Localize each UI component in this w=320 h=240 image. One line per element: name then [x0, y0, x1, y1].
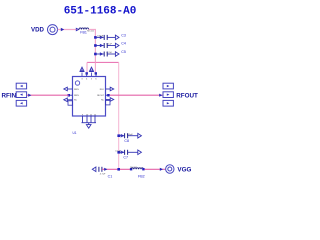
- junction at pin 96: [95, 72, 97, 74]
- capacitor C4: [104, 43, 107, 48]
- wire C8 to ground: [128, 135, 138, 137]
- svg-text:RFOUT: RFOUT: [97, 95, 105, 97]
- arrow into C8: [121, 135, 124, 137]
- ground below IC: [86, 125, 91, 129]
- ground right of C7: [138, 150, 142, 155]
- inductor FB1 coil: [79, 28, 89, 30]
- inner pin numbers bottom: [82, 114, 97, 116]
- wire VDD to FB1: [58, 29, 79, 31]
- arrow into C7: [121, 151, 124, 153]
- no-connect flag on top pin x82: [80, 67, 84, 77]
- wire C1 to junction: [102, 168, 131, 170]
- right pin arrow y99.5: [106, 98, 114, 102]
- capacitor C5: [104, 52, 107, 57]
- right pin wire RFOUT y95.2: [106, 94, 110, 96]
- svg-text:RFIN: RFIN: [74, 89, 79, 91]
- right pin arrow y89: [106, 87, 114, 91]
- svg-text:RFIN: RFIN: [74, 95, 79, 97]
- capacitor C1: [99, 167, 102, 172]
- svg-text:U1: U1: [73, 131, 77, 135]
- connector J3 RFOUT boxes: [163, 83, 173, 106]
- svg-text:4.7uF: 4.7uF: [100, 173, 106, 175]
- arrow out of RFIN: [28, 94, 31, 97]
- bottom pin stubs: [83, 116, 96, 123]
- junction left of FB2: [130, 168, 132, 170]
- junction at left pin y95.2: [68, 94, 71, 97]
- top pin numbers: [81, 78, 97, 80]
- svg-text:VGG: VGG: [177, 166, 191, 173]
- wire feed to pin at x96: [94, 62, 96, 73]
- arrow into FB1: [76, 28, 79, 31]
- wire IC to RFOUT: [110, 94, 163, 96]
- left pin wire RFIN y95.2: [69, 94, 73, 96]
- left pin stub box: [68, 101, 73, 105]
- left pin arrow y99.8: [64, 98, 73, 102]
- capacitor C7: [125, 150, 128, 155]
- svg-text:RFO: RFO: [100, 89, 105, 91]
- ground right of C8: [138, 133, 142, 138]
- arrow into RFOUT: [159, 94, 162, 97]
- wire drain rail down right side: [118, 62, 120, 169]
- connector J4 VGG circle: [166, 165, 174, 173]
- wire C3 branch: [95, 36, 103, 38]
- inner pin names left: [74, 89, 79, 102]
- svg-text:C8: C8: [124, 139, 129, 143]
- arrow into C4: [100, 44, 103, 46]
- ground right of C3: [115, 35, 119, 40]
- junction on rail at C5 branch: [94, 53, 97, 56]
- IC pin-1 circle: [75, 81, 79, 85]
- junction of drain rail and VGG rail: [117, 168, 120, 171]
- wire C4 to ground: [107, 45, 115, 47]
- arrow into VGG: [160, 168, 163, 171]
- junction on drain rail at C7 branch: [117, 151, 120, 154]
- svg-text:C1: C1: [108, 174, 113, 178]
- junction right of FB2: [142, 168, 144, 170]
- ground right of C4: [115, 43, 119, 48]
- junction at pin 86.7: [86, 72, 88, 74]
- junction on rail at C3 branch: [94, 36, 97, 39]
- arrow on VGG rail left: [104, 168, 107, 171]
- junction on rail at C4 branch: [94, 44, 97, 47]
- left pin arrow y89: [64, 87, 73, 91]
- ground right of C5: [115, 52, 119, 57]
- svg-text:651-1168-A0: 651-1168-A0: [64, 6, 137, 18]
- capacitor C3: [104, 35, 107, 40]
- no-connect flag on top pin x91.5: [89, 67, 93, 77]
- svg-text:RFIN: RFIN: [2, 92, 17, 99]
- junction at right pin y95.2: [107, 94, 110, 97]
- wire to ground stub: [88, 123, 90, 125]
- wire RFIN to IC: [27, 94, 69, 96]
- arrow into C5: [100, 53, 103, 55]
- arrow on VDD wire: [61, 28, 64, 31]
- svg-text:VDD: VDD: [31, 26, 44, 33]
- connector J1 VDD circle: [48, 25, 58, 35]
- wire C5 to ground: [107, 53, 115, 55]
- pin marks inside RFIN boxes: [20, 85, 23, 105]
- svg-text:FB2: FB2: [138, 175, 145, 179]
- right pin stub box: [106, 101, 111, 105]
- wire FB1 to VDD rail corner: [89, 30, 96, 38]
- connector J2 RFIN boxes: [16, 83, 26, 106]
- junction on drain rail at C8 branch: [117, 134, 120, 137]
- svg-text:RFOUT: RFOUT: [176, 93, 198, 100]
- node VDD rail vertical: [94, 37, 96, 62]
- bottom tie wire: [82, 122, 97, 124]
- wire C3 to ground: [107, 36, 115, 38]
- wire C7 to ground: [128, 151, 138, 153]
- arrow into C3: [100, 36, 103, 38]
- wire VDD tee horizontal: [87, 61, 119, 63]
- svg-text:C3: C3: [121, 34, 126, 38]
- svg-text:MC111: MC111: [87, 30, 95, 32]
- capacitor C8: [125, 133, 128, 138]
- wire FB2 to VGG: [145, 168, 166, 170]
- top pin stubs: [87, 73, 96, 77]
- pin marks inside RFOUT boxes: [167, 85, 170, 105]
- wire feed to pin at x87: [86, 62, 88, 73]
- inner pin names right: [97, 89, 105, 102]
- svg-text:C7: C7: [123, 156, 128, 160]
- svg-text:FB1: FB1: [80, 30, 87, 34]
- svg-text:100pF: 100pF: [97, 36, 104, 38]
- wire C4 branch: [95, 45, 103, 47]
- svg-text:C4: C4: [121, 42, 126, 46]
- wire C5 branch: [95, 53, 103, 55]
- wire C8 branch: [119, 135, 124, 137]
- svg-text:C5: C5: [121, 50, 126, 54]
- IC U1 body: [73, 77, 106, 117]
- wire C7 branch: [119, 151, 124, 153]
- inductor FB2 coil: [131, 168, 143, 170]
- ground left of C1: [92, 167, 96, 172]
